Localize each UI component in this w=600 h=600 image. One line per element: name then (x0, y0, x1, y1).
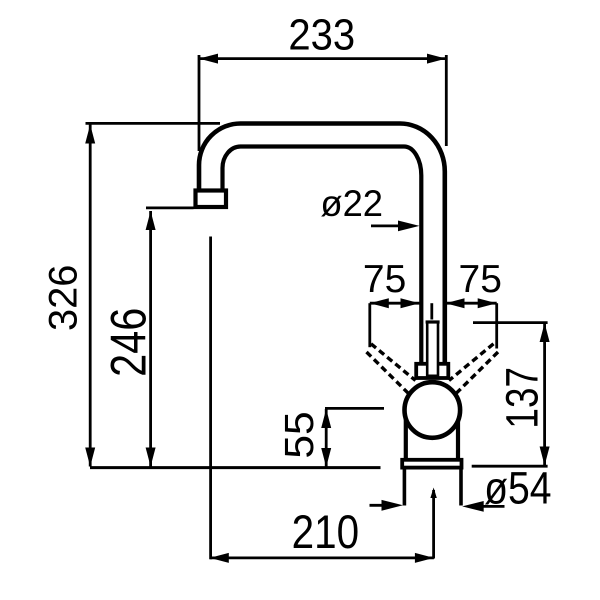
svg-text:ø22: ø22 (320, 182, 383, 224)
svg-text:137: 137 (497, 367, 547, 429)
svg-text:326: 326 (42, 265, 86, 331)
svg-text:246: 246 (100, 308, 157, 377)
svg-text:ø54: ø54 (484, 463, 551, 513)
svg-text:75: 75 (363, 258, 406, 301)
svg-text:75: 75 (459, 258, 502, 301)
svg-text:233: 233 (288, 10, 355, 59)
svg-text:210: 210 (292, 506, 359, 559)
svg-text:55: 55 (276, 411, 322, 458)
